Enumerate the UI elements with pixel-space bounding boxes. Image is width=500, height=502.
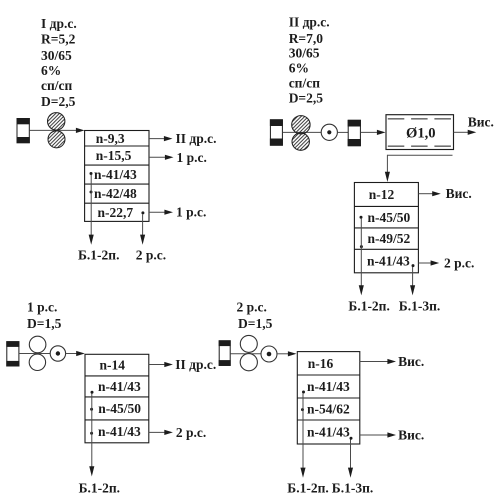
svg-text:n-49/52: n-49/52	[368, 231, 411, 246]
svg-text:D=2,5: D=2,5	[289, 91, 324, 106]
label Б.1-3п. (b4)	[332, 480, 373, 495]
block2 annotation II др.с.	[289, 15, 330, 30]
table3 row n-14	[100, 358, 126, 373]
junction dot table2 row2	[360, 216, 363, 219]
svg-text:Б.1-2п.: Б.1-2п.	[348, 298, 389, 313]
table4 row n-41/43	[307, 425, 350, 440]
junction dot table3 row3	[90, 408, 93, 411]
block1 annotation R=5,2	[41, 31, 76, 46]
arrow table4 row1 out	[360, 359, 396, 364]
block2 output bobbin	[348, 120, 361, 146]
svg-text:Б.1-2п.: Б.1-2п.	[78, 247, 119, 262]
down arrow table3 to Б.1-2п.	[89, 394, 94, 477]
svg-text:2 р.с.: 2 р.с.	[237, 300, 267, 315]
table2 row n-41/43	[367, 254, 410, 269]
svg-text:30/65: 30/65	[41, 48, 72, 63]
junction dot table3 row2	[91, 391, 94, 394]
junction dot table4 row4	[350, 437, 353, 440]
block4 bottom roller (open)	[240, 354, 257, 371]
block2 annotation сп/сп	[289, 76, 321, 91]
svg-text:2 р.с.: 2 р.с.	[136, 247, 166, 262]
svg-text:R=7,0: R=7,0	[289, 31, 324, 46]
wire bobbin to rollers (b2)	[282, 131, 329, 133]
block3 guide roller with dot	[50, 346, 65, 361]
svg-text:II др.с.: II др.с.	[176, 131, 217, 146]
label 2 р.с. (b3)	[176, 425, 206, 440]
label Б.1-2п. (b1)	[78, 247, 119, 262]
block4 top roller (open)	[240, 335, 257, 352]
arrow table1 row1 out	[149, 136, 173, 141]
svg-text:n-41/43: n-41/43	[307, 379, 350, 394]
svg-text:n-42/48: n-42/48	[94, 186, 137, 201]
svg-text:n-41/43: n-41/43	[307, 425, 350, 440]
junction dot table3 row4	[90, 432, 93, 435]
label Б.1-2п. (b2)	[348, 298, 389, 313]
svg-text:1 р.с.: 1 р.с.	[176, 205, 206, 220]
table4 row n-54/62	[307, 402, 350, 417]
svg-text:Вис.: Вис.	[398, 354, 424, 369]
svg-text:II др.с.: II др.с.	[175, 357, 216, 372]
label 2 р.с. (b1)	[136, 247, 166, 262]
svg-text:n-16: n-16	[308, 356, 334, 371]
arrow into lap machine (b2)	[360, 130, 385, 135]
svg-text:Ø1,0: Ø1,0	[406, 126, 436, 142]
svg-text:R=5,2: R=5,2	[41, 31, 76, 46]
svg-text:n-14: n-14	[100, 358, 126, 373]
svg-text:Б.1-3п.: Б.1-3п.	[332, 480, 373, 495]
block2 top drawing roller (hatched)	[292, 116, 310, 134]
table2 row n-49/52	[368, 231, 411, 246]
svg-text:n-54/62: n-54/62	[307, 402, 350, 417]
down arrow table2 left to Б.1-2п.	[359, 219, 364, 296]
block3 input bobbin	[6, 341, 19, 366]
svg-text:6%: 6%	[41, 63, 61, 78]
table3 row n-41/43	[98, 379, 141, 394]
svg-text:n-41/43: n-41/43	[94, 167, 137, 182]
label Вис. top (b2)	[468, 115, 494, 130]
down arrow into table2	[385, 155, 390, 182]
table1 row n-22,7	[98, 205, 134, 220]
svg-text:сп/сп: сп/сп	[41, 78, 73, 93]
lap machine box Ø1,0	[386, 115, 454, 150]
table2 row n-45/50	[368, 210, 411, 225]
block2 bottom drawing roller (hatched)	[292, 133, 309, 150]
block1 annotation D=2,5	[41, 94, 76, 109]
junction dot table2 row4	[412, 264, 415, 267]
label Вис. (table2)	[446, 186, 472, 201]
block3 bottom roller (open)	[29, 354, 45, 370]
arrow table3 row4 out	[149, 430, 173, 435]
table4 row n-41/43	[307, 379, 350, 394]
label II др.с. (b1)	[176, 131, 217, 146]
svg-text:2 р.с.: 2 р.с.	[444, 256, 474, 271]
label 2 р.с. (table2)	[444, 256, 474, 271]
table4 row n-16	[308, 356, 334, 371]
arrow into table4	[277, 351, 297, 356]
down arrow table4 left to Б.1-2п.	[300, 393, 305, 478]
svg-text:D=1,5: D=1,5	[238, 316, 273, 331]
svg-text:1 р.с.: 1 р.с.	[27, 300, 57, 315]
svg-text:n-41/43: n-41/43	[98, 424, 141, 439]
arrow table1 row2 out	[149, 155, 174, 160]
arrow table4 row4 out	[360, 432, 396, 437]
svg-text:Б.1-2п.: Б.1-2п.	[79, 480, 120, 495]
svg-text:Вис.: Вис.	[398, 428, 424, 443]
table3 row n-45/50	[98, 401, 141, 416]
block4 annotation D=1,5	[238, 316, 273, 331]
table2 row n-12	[369, 187, 395, 202]
block1 bottom drawing roller (hatched)	[48, 131, 65, 148]
block4 input bobbin	[219, 340, 231, 366]
junction dot table2 row3	[360, 245, 363, 248]
block3 top roller (open)	[29, 336, 46, 353]
wire roller to bobbin2 (b2)	[337, 131, 348, 133]
arrow table3 row1 out	[149, 362, 173, 367]
arrow into table3	[66, 351, 85, 356]
svg-text:n-41/43: n-41/43	[98, 379, 141, 394]
table3 row n-41/43	[98, 424, 141, 439]
svg-text:2 р.с.: 2 р.с.	[176, 425, 206, 440]
block2 annotation D=2,5	[289, 91, 324, 106]
block2 annotation 6%	[289, 61, 309, 76]
svg-text:6%: 6%	[289, 61, 309, 76]
svg-text:D=1,5: D=1,5	[27, 316, 62, 331]
down arrow table2 right to Б.1-3п.	[410, 267, 415, 295]
block3 annotation D=1,5	[27, 316, 62, 331]
block1 annotation 6%	[41, 63, 61, 78]
label Вис. (table4 row4)	[398, 428, 424, 443]
label Б.1-2п. (b3)	[79, 480, 120, 495]
junction dot table4 row2	[302, 391, 305, 394]
table1 row n-42/48	[94, 186, 137, 201]
down arrow table1 left to Б.1-2п.	[89, 175, 94, 245]
label Б.1-3п. (b2)	[399, 298, 440, 313]
table3 frame	[85, 354, 149, 443]
label Ø1,0	[406, 126, 436, 142]
svg-text:n-45/50: n-45/50	[368, 210, 411, 225]
block1 input bobbin	[17, 118, 30, 143]
wire bobbin to rollers (b4)	[230, 353, 269, 355]
junction dot table1 row4	[90, 191, 93, 194]
label II др.с. (b3)	[175, 357, 216, 372]
svg-text:II др.с.: II др.с.	[289, 15, 330, 30]
svg-text:n-12: n-12	[369, 187, 395, 202]
svg-text:n-41/43: n-41/43	[367, 254, 410, 269]
block2 annotation 30/65	[289, 46, 320, 61]
svg-text:D=2,5: D=2,5	[41, 94, 76, 109]
wire bobbin to rollers	[29, 129, 56, 131]
table1 frame	[85, 131, 149, 222]
block2 input bobbin	[270, 119, 283, 145]
svg-text:Б.1-3п.: Б.1-3п.	[399, 298, 440, 313]
arrow lap machine out to Вис.	[454, 130, 477, 135]
svg-text:30/65: 30/65	[289, 46, 320, 61]
block4 annotation 2 р.с.	[237, 300, 267, 315]
svg-text:n-22,7: n-22,7	[98, 205, 134, 220]
block1 annotation 30/65	[41, 48, 72, 63]
block3 annotation 1 р.с.	[27, 300, 57, 315]
svg-text:Вис.: Вис.	[468, 115, 494, 130]
svg-text:n-45/50: n-45/50	[98, 401, 141, 416]
arrow table2 row4 out	[418, 260, 439, 265]
svg-text:сп/сп: сп/сп	[289, 76, 321, 91]
down arrow table4 right to Б.1-3п.	[348, 440, 353, 478]
junction dot table4 row3	[301, 408, 304, 411]
block2 annotation R=7,0	[289, 31, 324, 46]
junction dot table1 row5	[141, 211, 144, 214]
label Б.1-2п. (b4)	[287, 480, 328, 495]
arrow table1 row5 out	[149, 210, 173, 215]
table4 frame	[297, 352, 360, 444]
label 1 р.с. (b1 row2)	[177, 150, 207, 165]
svg-text:I др.с.: I др.с.	[41, 16, 77, 31]
table2 frame	[354, 183, 418, 273]
block2 guide roller with dot	[321, 124, 337, 140]
label Вис. (table4 row1)	[398, 354, 424, 369]
junction dot table1 row3	[90, 172, 93, 175]
arrow table2 row1 out	[418, 191, 440, 196]
table1 row n-41/43	[94, 167, 137, 182]
sliver line under lap machine	[387, 154, 452, 156]
block4 guide roller with dot	[261, 346, 277, 362]
table1 row n-15,5	[96, 148, 132, 163]
svg-text:Вис.: Вис.	[446, 186, 472, 201]
block1 top drawing roller (hatched)	[48, 113, 65, 130]
svg-text:n-15,5: n-15,5	[96, 148, 132, 163]
svg-text:1 р.с.: 1 р.с.	[177, 150, 207, 165]
svg-text:n-9,3: n-9,3	[96, 131, 125, 146]
wire rollers to table1 with arrow	[54, 128, 85, 133]
down arrow table1 right to 2 р.с.	[140, 214, 145, 245]
svg-text:Б.1-2п.: Б.1-2п.	[287, 480, 328, 495]
table1 row n-9,3	[96, 131, 125, 146]
wire bobbin to rollers (b3)	[19, 353, 57, 355]
block1 annotation I др.с.	[41, 16, 77, 31]
block1 annotation сп/сп	[41, 78, 73, 93]
label 1 р.с. (b1 row5)	[176, 205, 206, 220]
